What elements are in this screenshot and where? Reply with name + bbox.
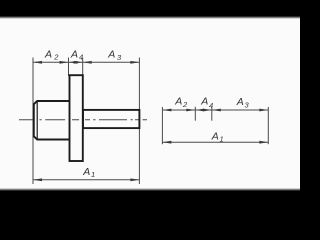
svg-text:A: A [200,96,208,108]
svg-text:A: A [107,49,115,61]
svg-text:2: 2 [53,53,59,62]
svg-text:1: 1 [220,134,224,143]
svg-text:3: 3 [117,53,122,62]
svg-text:4: 4 [209,101,213,110]
svg-text:A: A [82,166,90,178]
svg-text:1: 1 [91,170,95,179]
svg-text:A: A [211,131,219,143]
svg-text:A: A [44,48,52,60]
svg-text:A: A [70,48,78,60]
svg-text:3: 3 [245,101,250,110]
svg-text:2: 2 [182,100,188,109]
svg-text:A: A [174,96,182,108]
svg-text:4: 4 [79,53,83,62]
svg-text:A: A [236,96,244,108]
